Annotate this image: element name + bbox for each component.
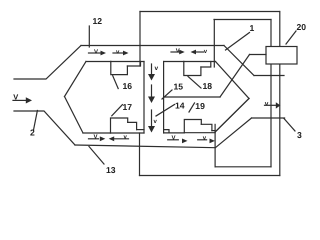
svg-text:15: 15 bbox=[174, 81, 184, 91]
middle channel down arrow 3 bbox=[148, 110, 155, 133]
label 14 leader bbox=[156, 105, 175, 117]
divider fork diagonal to box 20 bbox=[220, 55, 250, 98]
bottom channel top wall merge diagonal bbox=[215, 99, 249, 133]
label 16 leader bbox=[113, 76, 119, 89]
label 18 leader bbox=[188, 77, 201, 89]
middle channel down arrow 1 bbox=[148, 64, 155, 81]
label 19 leader bbox=[189, 103, 195, 112]
inner bottom loop left vertical bbox=[214, 124, 216, 166]
label 1 leader bbox=[226, 33, 250, 51]
top-right channel arrow D left bbox=[191, 50, 204, 55]
outer loop bottom horizontal bbox=[140, 175, 280, 177]
label 12 leader bbox=[88, 26, 90, 47]
svg-text:12: 12 bbox=[93, 16, 103, 26]
top channel top wall exit diagonal D1 bbox=[224, 46, 254, 76]
bottom channel top line left segment bbox=[83, 132, 111, 134]
bottom channel top line under 19 bbox=[184, 132, 215, 134]
outer recirculation loop top horizontal bbox=[140, 11, 280, 13]
bottom-left channel arrow E right bbox=[89, 136, 106, 141]
top channel bottom line over 18 bbox=[184, 61, 216, 63]
exit wall horizontal crossing pipes bbox=[252, 117, 285, 119]
inner top loop horizontal bbox=[214, 19, 271, 21]
splitter nose upper arm bbox=[65, 62, 87, 97]
middle channel down arrow 2 bbox=[148, 85, 155, 103]
component 17 second step bbox=[137, 129, 144, 131]
exit channel lower diagonal bbox=[215, 118, 251, 148]
svg-text:V: V bbox=[172, 135, 176, 142]
component 17 main box bbox=[111, 118, 128, 133]
component 17 step bbox=[128, 122, 137, 129]
bottom channel top line right segment bbox=[164, 132, 185, 134]
bottom mouth right step bbox=[164, 130, 169, 133]
middle channel right wall bbox=[163, 62, 165, 134]
label 3 leader bbox=[284, 119, 295, 132]
top-left channel arrow A bbox=[89, 51, 107, 56]
top channel bottom wall merge diagonal D2 bbox=[216, 62, 250, 99]
splitter nose lower arm bbox=[65, 97, 84, 134]
outer loop left vertical pipe bbox=[139, 12, 141, 67]
entry duct bottom wall bbox=[14, 111, 75, 145]
top channel bottom line over 16 bbox=[111, 61, 144, 63]
svg-text:3: 3 bbox=[297, 130, 302, 140]
label 17 leader bbox=[112, 105, 123, 116]
label 2 leader bbox=[34, 111, 38, 131]
middle divider bbox=[164, 96, 220, 98]
label 15 leader bbox=[162, 90, 172, 99]
svg-text:v: v bbox=[155, 65, 159, 72]
svg-text:V: V bbox=[13, 93, 18, 102]
svg-text:19: 19 bbox=[195, 101, 205, 111]
svg-text:V: V bbox=[176, 48, 180, 55]
top channel top line bbox=[81, 45, 224, 47]
outer loop bottom-left vertical bbox=[139, 133, 141, 176]
component 16 step bbox=[127, 62, 140, 67]
entry flow arrow V bbox=[13, 97, 32, 103]
svg-text:2: 2 bbox=[30, 128, 35, 138]
entry duct top wall bbox=[14, 46, 81, 80]
top-right channel arrow C right bbox=[171, 50, 185, 55]
svg-text:v: v bbox=[203, 135, 207, 141]
bottom channel bottom line bbox=[75, 145, 215, 148]
svg-text:V: V bbox=[94, 49, 98, 56]
top channel bottom line left segment bbox=[86, 61, 111, 63]
svg-text:14: 14 bbox=[175, 101, 185, 111]
component 19 main box bbox=[184, 120, 201, 133]
label 20 leader bbox=[286, 31, 296, 44]
component 16 main box bbox=[111, 62, 128, 75]
svg-text:V: V bbox=[94, 133, 98, 140]
middle channel left wall bbox=[143, 62, 145, 134]
svg-text:13: 13 bbox=[106, 165, 116, 175]
svg-text:18: 18 bbox=[203, 81, 213, 91]
svg-text:16: 16 bbox=[123, 81, 133, 91]
bottom channel top line under 17 bbox=[111, 132, 145, 134]
box 20 bbox=[266, 47, 297, 65]
top-left channel arrow B bbox=[113, 51, 129, 56]
svg-text:17: 17 bbox=[123, 102, 133, 112]
label 13 leader bbox=[89, 147, 104, 165]
outer loop right vertical pipe bbox=[279, 12, 281, 176]
svg-text:v: v bbox=[265, 100, 269, 107]
component 18 main box bbox=[184, 62, 201, 76]
svg-text:1: 1 bbox=[250, 23, 255, 33]
bottom-right channel arrow G right bbox=[168, 139, 188, 144]
right pipe flow arrow bbox=[265, 102, 281, 108]
left pipe below box 20 bbox=[270, 64, 272, 167]
top channel bottom line right segment bbox=[164, 61, 184, 63]
svg-text:v: v bbox=[204, 49, 208, 55]
inner top loop right vertical into box 20 bbox=[270, 20, 272, 47]
wall to left pipe bbox=[254, 75, 284, 77]
inner bottom loop horizontal bbox=[215, 166, 271, 168]
component 19 second step bbox=[212, 130, 215, 132]
inner top loop left vertical bbox=[213, 20, 215, 68]
svg-text:20: 20 bbox=[297, 22, 307, 32]
svg-text:v: v bbox=[154, 119, 158, 125]
merge nose lower arm bbox=[215, 99, 249, 133]
wall into box 20 left bbox=[250, 54, 267, 56]
bottom-left channel arrow F left bbox=[109, 136, 129, 141]
component 19 step bbox=[201, 124, 212, 130]
component 18 step bbox=[201, 62, 211, 68]
bottom-right channel arrow H right bbox=[198, 139, 215, 144]
